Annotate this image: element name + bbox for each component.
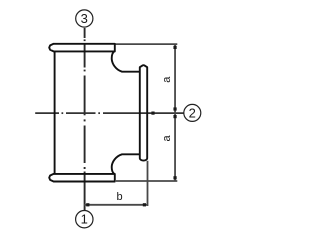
horizontal centerline / leader to port 2 — [35, 112, 183, 114]
dimension line a-a (vertical) — [174, 44, 176, 181]
port label circle 1 — [76, 211, 93, 228]
dimension line b (horizontal) — [84, 204, 148, 206]
svg-text:1: 1 — [81, 212, 88, 227]
extension line from bead down to b dimension — [147, 161, 149, 206]
tee top band — [49, 44, 115, 52]
dimension dot on port-2 leader — [151, 112, 154, 115]
tee right profile: branch bottom into lower shoulder — [112, 154, 140, 174]
extension line top (from band top edge) — [115, 43, 178, 45]
dimension dot left of b — [86, 203, 89, 206]
port label circle 2 — [184, 104, 201, 121]
svg-text:2: 2 — [189, 105, 196, 120]
dimension dot bottom of lower a — [173, 176, 176, 179]
extension line bottom (from band bottom edge) — [116, 180, 177, 182]
dimension dot right of b — [143, 203, 146, 206]
svg-text:3: 3 — [81, 11, 88, 26]
dimension dot top of lower a — [173, 115, 176, 118]
dimension dot bottom of upper a — [173, 107, 176, 110]
svg-text:b: b — [117, 191, 123, 203]
svg-text:a: a — [161, 135, 173, 142]
tee right profile: upper shoulder into branch top — [112, 51, 140, 71]
branch end bead — [140, 65, 147, 160]
tee bottom band — [49, 174, 115, 182]
vertical centerline (port 3 to port 1) — [84, 28, 86, 210]
svg-text:a: a — [161, 76, 173, 83]
tee body left edge — [54, 51, 56, 173]
dimension dot top of upper a — [173, 46, 176, 49]
port label circle 3 — [76, 10, 93, 27]
